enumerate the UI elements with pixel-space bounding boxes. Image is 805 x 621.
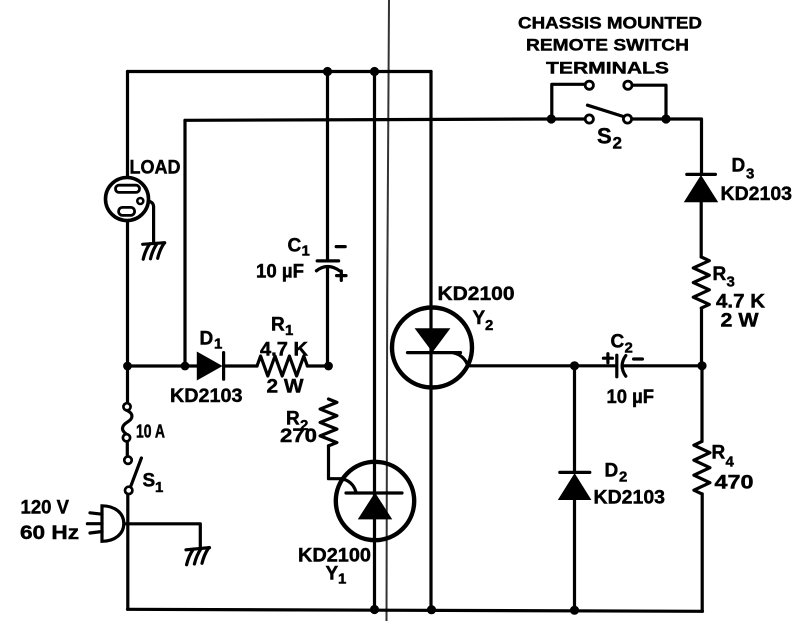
junction dot C2 R3 R4 — [697, 361, 706, 370]
svg-text:120 V: 120 V — [21, 498, 70, 519]
capacitor C1 curved plate — [316, 267, 339, 271]
wire left vertical upper (to LOAD) — [126, 72, 129, 187]
wire LOAD to ground — [143, 201, 154, 242]
svg-text:KD2100: KD2100 — [438, 284, 515, 305]
switch S2 left contact — [585, 115, 593, 123]
load socket lower slot — [119, 207, 135, 215]
SCR Y2 cathode bar — [408, 351, 461, 354]
switch S1 bottom contact — [125, 487, 132, 494]
scan fold artifact line — [387, 0, 390, 621]
svg-text:10 µF: 10 µF — [256, 262, 304, 283]
wire R1 to C1 junction — [307, 364, 328, 367]
junction dot top bus Y1 — [370, 67, 379, 76]
SCR Y1 cathode bar — [346, 491, 402, 494]
SCR Y1 circle — [336, 462, 414, 540]
diode D2 cathode bar — [560, 471, 590, 474]
svg-text:C: C — [288, 236, 302, 257]
svg-text:REMOTE SWITCH: REMOTE SWITCH — [526, 36, 689, 55]
wire D3 to R3 — [700, 201, 703, 257]
wire C2 junction to R4 — [700, 366, 703, 441]
svg-text:2: 2 — [619, 469, 627, 486]
capacitor C2 curved plate — [622, 356, 626, 377]
junction dot bottom Y2 — [427, 605, 436, 614]
wire D1 to R1 — [225, 364, 257, 367]
svg-text:3: 3 — [746, 166, 754, 183]
plug prong bottom — [90, 532, 102, 534]
svg-text:2: 2 — [485, 317, 493, 334]
switch S1 top contact — [124, 457, 131, 464]
wire Y2 branch vertical — [429, 72, 432, 610]
junction dot S2 left — [547, 114, 556, 123]
wire vertical rail corner down to D1 line — [183, 120, 186, 366]
wire D1 gate line left — [128, 364, 198, 367]
fuse 10A bottom terminal — [123, 434, 130, 441]
svg-text:60 Hz: 60 Hz — [20, 523, 79, 544]
capacitor C2 plus sign — [603, 354, 612, 363]
chassis ground near load — [143, 243, 165, 260]
switch S1 blade — [131, 458, 142, 487]
svg-text:10 µF: 10 µF — [607, 387, 655, 408]
svg-text:4.7 K: 4.7 K — [260, 340, 308, 361]
svg-text:KD2103: KD2103 — [594, 487, 666, 509]
svg-text:2 W: 2 W — [721, 311, 759, 332]
wire rail segment S2 contact to dot — [632, 117, 667, 120]
wire R2 to Y1 gate — [329, 446, 357, 492]
wire rail dot to D3 corner — [666, 119, 702, 173]
resistor R3 — [693, 257, 709, 308]
SCR Y2 triangle — [417, 329, 449, 350]
capacitor C1 minus sign — [336, 245, 345, 248]
wire bottom bus — [128, 609, 703, 611]
svg-text:R: R — [713, 264, 727, 285]
svg-text:2 W: 2 W — [267, 377, 304, 398]
junction dot C2 D2 — [570, 361, 579, 370]
wire left vertical mid (LOAD to fuse) — [126, 214, 129, 403]
svg-text:S: S — [143, 471, 156, 492]
capacitor C1 top plate — [317, 259, 338, 262]
svg-text:R: R — [271, 315, 285, 336]
svg-text:1: 1 — [285, 322, 293, 339]
svg-text:3: 3 — [727, 274, 735, 291]
capacitor C2 left plate — [615, 355, 618, 377]
capacitor C2 minus sign — [634, 357, 643, 360]
diode D3 cathode bar — [687, 173, 716, 176]
junction dot top bus C1 — [323, 67, 332, 76]
svg-text:TERMINALS: TERMINALS — [546, 59, 669, 78]
junction dot bottom Y1 — [370, 605, 379, 614]
switch S2 right contact — [623, 115, 631, 123]
wire S2 upper terminal left stub — [552, 84, 585, 119]
svg-text:10 A: 10 A — [136, 422, 165, 442]
svg-text:2: 2 — [613, 134, 622, 153]
svg-text:Y: Y — [326, 564, 339, 585]
diode D1 cathode bar — [222, 353, 225, 380]
svg-text:S: S — [597, 124, 612, 149]
svg-text:1: 1 — [155, 479, 163, 496]
resistor R1 — [257, 356, 307, 376]
svg-text:D: D — [200, 329, 214, 350]
svg-text:4.7 K: 4.7 K — [716, 292, 765, 313]
junction dot S2 right — [661, 114, 670, 123]
svg-text:1: 1 — [338, 571, 346, 588]
svg-text:1: 1 — [302, 243, 310, 260]
wire below S1 to bottom bus — [126, 494, 129, 609]
load socket outline — [106, 178, 149, 221]
fuse 10A top terminal — [123, 403, 130, 410]
svg-text:D: D — [732, 156, 746, 177]
wire R3 to C2 junction — [700, 308, 703, 366]
junction dot left D1 — [123, 362, 132, 371]
switch S2 blade — [588, 105, 623, 116]
wire top bus — [128, 70, 432, 73]
wire fuse to S1 — [126, 441, 129, 456]
fuse 10A element — [122, 410, 131, 434]
junction dot bottom D2 — [570, 606, 579, 615]
svg-text:270: 270 — [280, 426, 317, 447]
svg-text:LOAD: LOAD — [130, 158, 181, 179]
svg-text:1: 1 — [214, 336, 222, 353]
remote terminal right — [624, 81, 632, 89]
plug prong middle — [87, 522, 102, 525]
wire D2 branch upper — [573, 366, 576, 471]
wire C1 branch lower — [326, 268, 329, 367]
plug prong top — [90, 513, 102, 514]
resistor R2 — [320, 399, 337, 446]
SCR Y2 circle — [392, 308, 472, 388]
svg-text:4: 4 — [726, 454, 735, 471]
wire R4 to bottom bus — [701, 494, 704, 611]
svg-text:D: D — [605, 461, 619, 482]
resistor R4 — [694, 441, 710, 494]
wire plug to ground corner — [122, 524, 200, 547]
wire C1 branch upper — [326, 72, 329, 260]
svg-text:Y: Y — [473, 308, 486, 329]
wire C2 to R3 junction — [624, 364, 702, 367]
svg-text:C: C — [611, 332, 625, 353]
svg-text:R: R — [712, 443, 726, 464]
svg-text:KD2103: KD2103 — [721, 183, 793, 205]
diode D1 triangle — [198, 353, 221, 379]
wire Y2 gate to C2 — [468, 364, 615, 367]
capacitor C1 plus sign — [337, 271, 346, 280]
plug 120V body — [102, 506, 124, 542]
wire remote rail horizontal — [185, 119, 551, 120]
diode D3 triangle — [686, 177, 717, 201]
load socket ground hole — [137, 198, 143, 204]
svg-text:470: 470 — [715, 473, 754, 494]
SCR Y1 triangle — [360, 494, 391, 518]
wire S2 upper terminal right stub — [632, 85, 666, 119]
load socket upper slot — [116, 185, 140, 192]
diode D2 triangle — [560, 475, 590, 499]
svg-text:CHASSIS MOUNTED: CHASSIS MOUNTED — [518, 14, 702, 33]
wire rail segment dot to S2 contact — [551, 117, 586, 120]
chassis ground near plug — [186, 548, 210, 565]
junction dot rail vertical D1 — [181, 362, 190, 371]
wire Y1 branch vertical — [373, 72, 376, 610]
svg-text:2: 2 — [625, 340, 633, 357]
SCR Y2 gate hook — [454, 353, 468, 366]
remote terminal left — [585, 81, 593, 89]
svg-text:KD2103: KD2103 — [170, 385, 243, 407]
junction dot R1 C1 R2 — [324, 362, 333, 371]
wire D2 branch lower — [573, 499, 576, 611]
